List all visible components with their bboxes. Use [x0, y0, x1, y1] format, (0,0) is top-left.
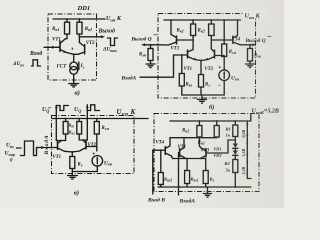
wire Rк2 leads: [78, 19, 80, 43]
wire emitters to current source: [67, 53, 74, 63]
wire emitters to Re: [65, 151, 73, 156]
wire input arrow: [44, 46, 53, 48]
resistor Rк1: [191, 24, 196, 36]
wire VT2 base to Rsm node: [215, 55, 225, 57]
wire Rк2 node to VT4 base: [211, 39, 233, 41]
diode VD2: [233, 151, 238, 155]
gate dashed box: [158, 14, 256, 99]
resistor Rэ: [203, 171, 208, 184]
resistor Rсм: [94, 122, 99, 135]
wire ground stem: [71, 172, 73, 176]
wire GST arrow mark: [78, 62, 80, 69]
resistor Rк2: [209, 24, 215, 36]
wire Rк2 leads: [210, 20, 212, 49]
transistor VT1: [60, 39, 67, 53]
resistor Rк2: [197, 126, 202, 138]
resistor Rвх2: [158, 173, 163, 185]
wire Rd1 leads: [65, 119, 67, 141]
wire bottom rail: [158, 186, 251, 188]
wire bottom rail: [182, 94, 224, 96]
wire Rd2 leads: [78, 119, 80, 141]
wire Re bottom: [71, 169, 73, 172]
resistor Rвх1: [185, 171, 190, 184]
wire ground stem: [201, 95, 203, 100]
wire top rail: [164, 19, 241, 21]
ground fig g: [204, 194, 212, 198]
wire Rк2 leads: [198, 121, 200, 146]
resistor Rэ: [199, 75, 204, 88]
resistor Rк1: [214, 126, 219, 138]
wire ground stem: [207, 187, 209, 194]
wire input A riser: [179, 153, 180, 196]
wire common emitter bus: [173, 159, 206, 171]
wire VT4 base: [153, 149, 166, 151]
waveform pulse up in: [32, 60, 41, 66]
current source GST circle: [70, 62, 78, 70]
wire R2 bottom: [234, 173, 236, 188]
transistor VT2: [201, 49, 215, 61]
wire Uop to bottom rail: [96, 166, 98, 171]
resistor Rd1: [63, 122, 68, 135]
wire Rсм leads: [96, 119, 98, 152]
wire Rк1 node to VT3 base: [177, 39, 194, 41]
wire output from Rк2 node: [79, 36, 96, 38]
wire Rэн left leads: [150, 45, 152, 64]
transistor VT1: [188, 50, 202, 61]
wire top rail: [52, 118, 148, 120]
ground fig b: [198, 100, 207, 104]
ground fig a: [69, 84, 79, 87]
IC dashed box DD1: [48, 14, 97, 80]
wire Rк1 leads: [66, 19, 68, 39]
waveform pulse up UQ: [87, 105, 99, 111]
wire UQbar riser: [56, 106, 65, 141]
transistor VT2: [74, 43, 85, 55]
wire bottom rail: [72, 171, 97, 173]
wire VT2 base to ref node: [86, 146, 97, 148]
ground under Rэн right: [246, 64, 255, 68]
wire Rэ bottom: [205, 184, 207, 188]
wire UQ riser: [79, 111, 87, 141]
wire input A path: [140, 55, 188, 77]
wire Rэ bottom: [200, 87, 202, 95]
dimension line with arrows: [247, 121, 251, 179]
gate dashed box: [52, 116, 135, 174]
waveform pulse down out: [108, 38, 118, 46]
waveform input pulse with threshold: [21, 141, 37, 156]
wire output arrow: [97, 36, 103, 38]
wire Rвх1 leads: [186, 159, 188, 188]
wire top rail: [170, 114, 251, 121]
transistor VT1: [180, 138, 186, 159]
ground fig v: [68, 176, 78, 180]
wire Uop to bottom rail: [223, 81, 225, 96]
voltage source Uop: [92, 156, 103, 167]
wire emitters to Re: [200, 61, 202, 75]
transistor VT3: [201, 148, 207, 159]
wire Rсм riser from rail: [223, 20, 225, 44]
ground under Rэн left: [146, 64, 155, 68]
wire output Q arrow: [240, 44, 254, 46]
wire Rсм to Uop: [223, 57, 225, 70]
wire Rк1 leads: [216, 121, 218, 138]
wire collector bus VT4 VT1 to Rк1: [170, 137, 217, 139]
wire VT3 base to ref: [206, 140, 235, 153]
diode VD1: [233, 144, 238, 148]
resistor Rd2: [77, 122, 82, 135]
wire Rэн right leads: [249, 45, 251, 64]
transistor VT4: [233, 20, 240, 45]
resistor Rк1: [65, 22, 70, 34]
wire Rк2 to VT3 collector: [199, 146, 201, 148]
transistor VT3: [158, 20, 177, 45]
wire Rвх2 leads: [160, 150, 162, 187]
resistor R1: [233, 125, 238, 137]
wire Rк1 leads: [192, 20, 194, 50]
resistor Rсм: [222, 44, 227, 57]
wire input to VT1 base: [37, 147, 54, 149]
transistor VT4: [165, 138, 172, 159]
transistor VT2: [72, 140, 86, 152]
voltage source Uop: [219, 70, 230, 81]
wire Rвх leads: [181, 55, 183, 95]
wire R1 leads: [234, 121, 236, 144]
resistor Rвх: [179, 74, 184, 87]
wire input B riser: [152, 150, 154, 194]
transistor VT1: [58, 141, 65, 152]
resistor Rэ: [70, 157, 75, 169]
resistor Rэн left: [148, 49, 153, 61]
gate dashed box: [154, 114, 259, 192]
resistor Rк2: [77, 22, 82, 34]
resistor R2: [233, 160, 238, 173]
wire top rail: [53, 18, 105, 20]
wire GST to ground: [73, 74, 75, 83]
resistor Rэн right: [248, 49, 253, 62]
wire output Qbar arrow: [144, 44, 158, 46]
waveform pulse down UQbar: [56, 106, 68, 111]
